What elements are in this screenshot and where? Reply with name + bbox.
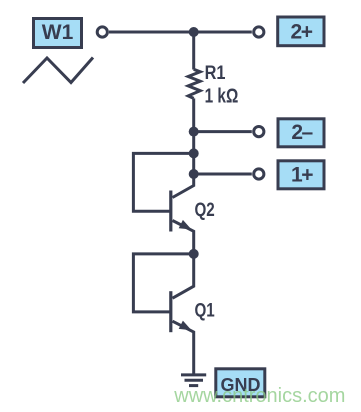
Q2 base bar bbox=[169, 191, 172, 232]
terminal GND box bbox=[216, 369, 265, 397]
terminal circle 2- bbox=[254, 127, 264, 137]
Q2 collector lead bbox=[173, 174, 194, 198]
triangle waveform symbol bbox=[23, 58, 93, 84]
svg-text:www.cntronics.com: www.cntronics.com bbox=[173, 385, 345, 407]
Q2 emitter arrow bbox=[179, 220, 192, 230]
terminal 1+ box bbox=[278, 161, 324, 189]
svg-text:Q1: Q1 bbox=[195, 299, 216, 321]
wire Q1 base-collector loop bbox=[133, 254, 193, 312]
svg-text:1 kΩ: 1 kΩ bbox=[205, 85, 239, 107]
svg-text:R1: R1 bbox=[205, 62, 226, 83]
transistor Q2 bbox=[171, 174, 215, 256]
resistor R1 bbox=[188, 69, 200, 98]
terminal 2+ box bbox=[278, 17, 324, 46]
source W1 box bbox=[34, 19, 82, 48]
terminal circle 1+ bbox=[254, 169, 264, 179]
Q2 emitter lead bbox=[173, 221, 194, 257]
svg-text:2+: 2+ bbox=[291, 21, 313, 44]
wire Q2 base-collector loop bbox=[133, 153, 193, 211]
Q1 emitter arrow bbox=[179, 321, 192, 331]
ground bbox=[181, 375, 206, 386]
wire R1 bottom lead bbox=[192, 98, 195, 131]
wire R1 top lead bbox=[192, 32, 195, 70]
Q1 collector lead bbox=[173, 254, 194, 298]
terminal circle W1 bbox=[97, 27, 107, 37]
wire top horizontal bbox=[109, 31, 252, 34]
terminal 2- box bbox=[278, 119, 324, 147]
wire 1+ branch bbox=[194, 173, 252, 176]
svg-text:W1: W1 bbox=[42, 21, 74, 44]
node 1+ junction bbox=[189, 169, 199, 179]
Q1 base bar bbox=[169, 291, 172, 332]
svg-text:2–: 2– bbox=[291, 121, 313, 144]
node Q1 base-collector tie junction bbox=[189, 249, 199, 259]
node R1 bottom junction bbox=[189, 127, 199, 137]
transistor Q1 bbox=[171, 254, 215, 375]
terminal circle 2+ bbox=[254, 27, 264, 37]
svg-text:Q2: Q2 bbox=[195, 198, 215, 220]
wire 2- branch bbox=[194, 130, 252, 133]
node Q2 base-collector tie junction bbox=[189, 148, 199, 158]
svg-text:1+: 1+ bbox=[291, 164, 313, 187]
wire vertical between nodes bbox=[192, 132, 195, 174]
node top junction bbox=[189, 27, 199, 37]
Q1 emitter lead bbox=[173, 321, 194, 374]
